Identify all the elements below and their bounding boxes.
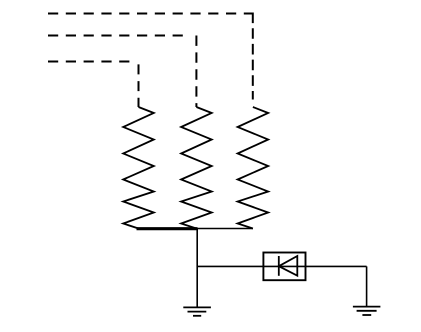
wire: dashed lead 3 vertical [138,62,140,108]
wire: bus down to ground [196,229,198,308]
resistor R1 [123,107,154,229]
ground (left) [183,307,211,315]
diode D1 cathode bar [278,256,280,276]
wire: bus to R3 bottom [197,228,253,230]
wire: dashed lead 1 vertical [252,13,254,100]
resistor R3 [238,107,269,229]
wire: dashed lead 2 vertical [195,36,197,108]
wire: dashed lead 3 horizontal (bottom, to R1) [48,61,134,63]
diode D1 enclosure box [263,253,305,281]
resistor R2 [181,107,212,229]
wire: dashed lead 2 horizontal (middle, to R2) [48,35,190,37]
node: common bus bar (thick) [137,227,198,230]
diode D1 triangle [279,256,298,276]
wire: dashed lead 1 horizontal (top, to R3) [48,13,253,15]
wire: branch to diode and right [197,265,366,267]
ground (right) [353,307,381,315]
wire: right vertical to ground [366,266,368,306]
